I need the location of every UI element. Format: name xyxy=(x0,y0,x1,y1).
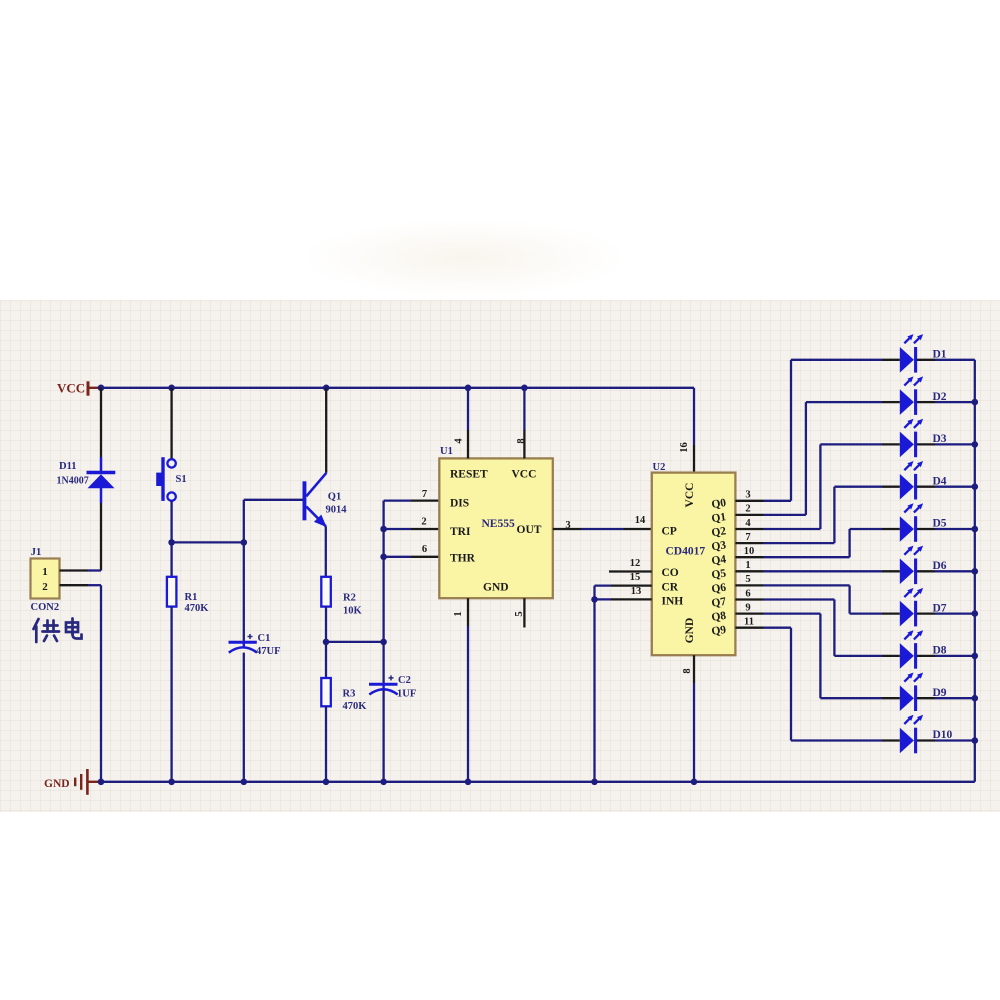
svg-text:9014: 9014 xyxy=(326,505,348,516)
svg-text:CD4017: CD4017 xyxy=(666,546,706,558)
svg-text:1: 1 xyxy=(42,566,48,578)
svg-text:Q2: Q2 xyxy=(711,525,727,539)
svg-text:GND: GND xyxy=(483,582,509,594)
svg-text:D8: D8 xyxy=(933,645,947,657)
svg-text:470K: 470K xyxy=(185,603,210,614)
svg-text:Q3: Q3 xyxy=(711,539,727,553)
svg-text:10: 10 xyxy=(744,546,755,557)
svg-text:D11: D11 xyxy=(59,461,77,472)
svg-text:D6: D6 xyxy=(933,560,947,572)
svg-text:C1: C1 xyxy=(258,633,271,644)
svg-text:13: 13 xyxy=(631,586,642,597)
svg-text:7: 7 xyxy=(745,532,750,543)
svg-text:4: 4 xyxy=(454,438,465,444)
svg-text:Q1: Q1 xyxy=(328,492,341,503)
svg-text:RESET: RESET xyxy=(450,469,488,481)
svg-text:D5: D5 xyxy=(933,518,947,530)
svg-text:16: 16 xyxy=(679,442,690,453)
svg-text:D1: D1 xyxy=(933,349,947,361)
svg-text:D2: D2 xyxy=(933,391,947,403)
svg-text:THR: THR xyxy=(450,553,476,565)
svg-text:6: 6 xyxy=(745,588,750,599)
svg-text:Q8: Q8 xyxy=(711,610,727,624)
svg-text:9: 9 xyxy=(745,602,750,613)
svg-text:1N4007: 1N4007 xyxy=(57,476,89,487)
svg-text:1: 1 xyxy=(453,611,464,616)
svg-text:Q1: Q1 xyxy=(711,511,727,525)
svg-text:CP: CP xyxy=(662,526,677,538)
svg-text:7: 7 xyxy=(422,489,427,500)
svg-text:CO: CO xyxy=(662,567,679,579)
svg-text:INH: INH xyxy=(662,595,684,607)
svg-text:2: 2 xyxy=(42,581,48,593)
svg-text:DIS: DIS xyxy=(450,498,469,510)
svg-text:D9: D9 xyxy=(933,687,947,699)
svg-text:VCC: VCC xyxy=(57,381,85,396)
svg-text:TRI: TRI xyxy=(450,526,471,538)
svg-text:Q6: Q6 xyxy=(711,582,727,596)
svg-text:VCC: VCC xyxy=(684,483,696,508)
svg-text:15: 15 xyxy=(630,572,641,583)
svg-text:GND: GND xyxy=(44,778,70,790)
svg-text:Q0: Q0 xyxy=(711,497,727,511)
svg-text:GND: GND xyxy=(684,618,696,644)
svg-text:8: 8 xyxy=(682,668,693,673)
svg-text:D4: D4 xyxy=(933,475,947,487)
svg-text:4: 4 xyxy=(745,518,751,529)
svg-text:NE555: NE555 xyxy=(482,518,515,530)
svg-text:D3: D3 xyxy=(933,433,947,445)
svg-text:D10: D10 xyxy=(933,729,953,741)
svg-text:2: 2 xyxy=(421,517,426,528)
svg-text:S1: S1 xyxy=(176,474,187,485)
svg-text:1: 1 xyxy=(745,560,750,571)
svg-text:C2: C2 xyxy=(398,675,411,686)
svg-text:OUT: OUT xyxy=(517,524,542,536)
svg-text:Q4: Q4 xyxy=(711,553,727,567)
svg-text:14: 14 xyxy=(635,515,646,526)
svg-text:CR: CR xyxy=(662,581,679,593)
svg-text:CON2: CON2 xyxy=(31,602,60,613)
svg-text:R2: R2 xyxy=(343,593,356,604)
svg-text:U1: U1 xyxy=(440,446,453,457)
svg-text:R3: R3 xyxy=(343,689,356,700)
svg-text:U2: U2 xyxy=(653,462,666,473)
svg-text:5: 5 xyxy=(745,574,750,585)
svg-text:11: 11 xyxy=(744,617,754,628)
svg-text:12: 12 xyxy=(630,558,641,569)
svg-text:3: 3 xyxy=(565,520,570,531)
svg-text:Q9: Q9 xyxy=(711,624,727,638)
svg-text:10K: 10K xyxy=(343,606,363,617)
svg-text:5: 5 xyxy=(514,611,525,616)
svg-text:6: 6 xyxy=(422,544,427,555)
svg-text:1UF: 1UF xyxy=(397,689,416,700)
svg-text:8: 8 xyxy=(516,438,527,443)
svg-text:VCC: VCC xyxy=(512,469,537,481)
svg-text:D7: D7 xyxy=(933,602,947,614)
svg-text:3: 3 xyxy=(745,490,750,501)
svg-text:2: 2 xyxy=(745,504,750,515)
svg-text:47UF: 47UF xyxy=(256,646,281,657)
svg-text:R1: R1 xyxy=(185,592,198,603)
svg-text:Q7: Q7 xyxy=(711,596,727,610)
svg-text:J1: J1 xyxy=(31,547,42,558)
svg-text:Q5: Q5 xyxy=(711,568,727,582)
svg-text:470K: 470K xyxy=(343,701,368,712)
